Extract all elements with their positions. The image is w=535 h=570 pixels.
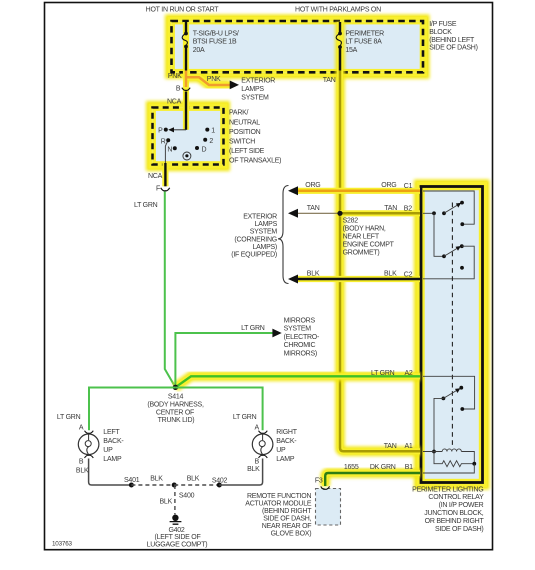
svg-text:OF TRANSAXLE): OF TRANSAXLE) <box>229 158 281 165</box>
F3 connector symbol <box>321 486 330 489</box>
relay link B2 to lower switch <box>434 213 444 256</box>
svg-text:ORG: ORG <box>305 182 320 189</box>
wire: ORG row core <box>298 190 420 193</box>
fuse F2 squiggle <box>339 22 341 71</box>
wire: PNK branch core <box>186 77 230 85</box>
relay lower switch arm <box>444 248 458 257</box>
svg-text:LEFT: LEFT <box>103 429 120 436</box>
svg-text:HOT WITH PARKLAMPS ON: HOT WITH PARKLAMPS ON <box>295 6 381 13</box>
svg-text:UP: UP <box>103 447 113 454</box>
wire: TAN B2 row core <box>340 212 420 215</box>
svg-text:EXTERIOR: EXTERIOR <box>241 78 275 85</box>
svg-text:MIRRORS): MIRRORS) <box>284 350 317 357</box>
svg-text:B: B <box>79 458 84 465</box>
svg-text:2: 2 <box>209 138 213 145</box>
svg-text:LT FUSE 8A: LT FUSE 8A <box>345 39 382 46</box>
svg-text:LAMPS: LAMPS <box>241 86 264 93</box>
park/neutral switch box glow <box>153 108 224 165</box>
brace for exterior lamps system <box>278 186 289 284</box>
wire: LT GRN A2 row core <box>175 376 420 387</box>
svg-text:UP: UP <box>276 447 286 454</box>
svg-text:TAN: TAN <box>384 443 397 450</box>
arrow to exterior lamps system (top) <box>230 81 239 90</box>
svg-text:PARK/: PARK/ <box>229 110 249 117</box>
perimeter lighting control relay box fill <box>421 187 483 483</box>
svg-text:JUNCTION BLOCK,: JUNCTION BLOCK, <box>424 510 484 517</box>
wire: LT GRN A2 row glow <box>175 376 420 387</box>
svg-text:LT GRN: LT GRN <box>57 414 81 421</box>
svg-text:BLK: BLK <box>187 475 200 482</box>
svg-text:(BODY HARNESS,: (BODY HARNESS, <box>147 402 204 409</box>
arrow ORG left <box>288 186 298 195</box>
svg-text:S282: S282 <box>343 217 359 224</box>
wire: BLK C2 row glow <box>298 274 420 284</box>
svg-text:POSITION: POSITION <box>229 129 261 136</box>
svg-text:(ELECTRO-: (ELECTRO- <box>284 334 320 341</box>
svg-text:(LEFT SIDE OF: (LEFT SIDE OF <box>154 534 200 541</box>
svg-text:N: N <box>167 147 172 154</box>
wire: LT GRN to left back-up lamp <box>89 388 175 431</box>
svg-text:NEUTRAL: NEUTRAL <box>229 119 260 126</box>
relay A2 line <box>423 376 475 409</box>
svg-text:BLK: BLK <box>247 466 260 473</box>
remote function actuator module box fill <box>316 489 341 526</box>
svg-text:B: B <box>176 85 181 92</box>
relay upper switch arm <box>444 204 459 213</box>
relay resistor <box>434 452 474 467</box>
svg-text:LAMPS): LAMPS) <box>252 244 277 251</box>
wire: BLK C2 row core <box>298 278 420 281</box>
wire: ORG row glow <box>298 186 420 196</box>
svg-text:S402: S402 <box>212 477 228 484</box>
svg-text:(IN I/P POWER: (IN I/P POWER <box>439 502 484 509</box>
svg-text:A2: A2 <box>405 370 413 377</box>
wire thin from R contact down inside switch box <box>165 141 168 165</box>
left lamp A connector <box>85 431 94 434</box>
perimeter lighting control relay box glow <box>421 187 483 483</box>
svg-text:BLK: BLK <box>150 475 163 482</box>
svg-text:(BEHIND RIGHT: (BEHIND RIGHT <box>262 508 312 515</box>
svg-text:RIGHT: RIGHT <box>276 429 298 436</box>
arrow TAN left <box>288 209 298 218</box>
svg-text:LUGGAGE COMPT): LUGGAGE COMPT) <box>147 542 208 549</box>
svg-text:ORG: ORG <box>381 182 396 189</box>
splice S400 <box>172 483 177 488</box>
svg-text:TAN: TAN <box>323 77 336 84</box>
svg-text:PNK: PNK <box>207 76 221 83</box>
splice S414 dot <box>173 385 178 390</box>
svg-text:ENGINE COMPT: ENGINE COMPT <box>343 241 395 248</box>
svg-text:CONTROL RELAY: CONTROL RELAY <box>428 494 484 501</box>
right back-up lamp bulb <box>252 434 273 455</box>
svg-text:LAMPS: LAMPS <box>255 221 278 228</box>
wire: LT GRN branch to mirrors <box>175 333 272 387</box>
svg-text:1655: 1655 <box>344 464 359 471</box>
svg-text:CENTER OF: CENTER OF <box>156 409 194 416</box>
svg-text:NCA: NCA <box>167 98 182 105</box>
wire: DK GRN B1 row glow <box>325 473 420 486</box>
relay C1 line <box>423 191 474 224</box>
relay B1 line <box>423 464 474 473</box>
svg-text:S401: S401 <box>124 477 140 484</box>
relay dashed actuation line <box>451 203 453 447</box>
svg-text:G402: G402 <box>168 527 184 534</box>
svg-text:PNK: PNK <box>168 73 182 80</box>
svg-text:B1: B1 <box>405 464 413 471</box>
svg-text:C1: C1 <box>404 183 413 190</box>
wire: LT GRN main vertical <box>165 192 176 388</box>
remote function actuator module box dashed border <box>316 489 341 526</box>
wire: PNK core fuse to B connector <box>185 71 188 88</box>
svg-text:R: R <box>161 138 166 145</box>
perimeter lighting control relay box border <box>421 187 483 483</box>
svg-text:TRUNK LID): TRUNK LID) <box>158 417 195 424</box>
svg-text:SIDE OF DASH): SIDE OF DASH) <box>429 45 477 52</box>
svg-text:EXTERIOR: EXTERIOR <box>243 214 277 221</box>
circled D contact <box>185 154 188 157</box>
svg-text:GLOVE BOX): GLOVE BOX) <box>271 531 312 538</box>
svg-text:T-SIG/B-U LPS/: T-SIG/B-U LPS/ <box>193 30 239 37</box>
relay C2 line <box>423 246 474 279</box>
svg-text:LAMP: LAMP <box>276 456 295 463</box>
left back-up lamp bulb <box>78 434 99 455</box>
svg-text:20A: 20A <box>193 47 205 54</box>
I/P fuse block box fill <box>172 21 424 72</box>
svg-text:(IF EQUIPPED): (IF EQUIPPED) <box>231 252 277 259</box>
park/neutral switch box fill <box>153 108 224 165</box>
svg-text:BTSI FUSE 1B: BTSI FUSE 1B <box>193 39 237 46</box>
park/neutral switch internals: wire into P arrow <box>172 129 186 131</box>
wire: black NCA below switch core <box>164 163 166 186</box>
svg-text:BACK-: BACK- <box>103 438 124 445</box>
svg-text:TAN: TAN <box>384 205 397 212</box>
F connector symbol <box>161 188 170 191</box>
svg-text:ACTUATOR MODULE: ACTUATOR MODULE <box>245 501 312 508</box>
wire: dashed BLK S400 to ground <box>174 485 176 515</box>
left lamp B connector <box>85 455 94 458</box>
wire: TAN vertical core <box>340 49 420 451</box>
svg-text:LT GRN: LT GRN <box>233 414 257 421</box>
svg-text:TAN: TAN <box>307 205 320 212</box>
contact dots P R N D 1 2 <box>164 128 168 132</box>
svg-text:(BEHIND LEFT: (BEHIND LEFT <box>429 37 475 44</box>
wire: DK GRN B1 row core <box>325 473 420 486</box>
svg-text:A: A <box>79 424 84 431</box>
svg-text:BLK: BLK <box>160 499 173 506</box>
wire: BLK left lamp down <box>89 459 132 486</box>
svg-text:GROMMET): GROMMET) <box>343 249 380 256</box>
svg-text:SYSTEM: SYSTEM <box>241 95 269 102</box>
svg-text:F3: F3 <box>315 478 323 485</box>
wire: PNK fuse output glow <box>181 22 191 130</box>
relay isolated contact dot <box>460 266 464 270</box>
right lamp A connector <box>259 431 268 434</box>
svg-text:I/P FUSE: I/P FUSE <box>429 21 457 28</box>
svg-text:SYSTEM: SYSTEM <box>284 326 312 333</box>
svg-text:BLK: BLK <box>307 271 320 278</box>
svg-text:SYSTEM: SYSTEM <box>250 229 278 236</box>
right lamp B connector <box>259 455 268 458</box>
wire: black core B connector to switch <box>185 92 187 130</box>
svg-text:LT GRN: LT GRN <box>134 202 158 209</box>
arrow to mirrors system <box>272 329 281 338</box>
svg-text:DK GRN: DK GRN <box>370 464 396 471</box>
wire: dashed BLK S401-S400 <box>131 484 174 486</box>
wire: BLK S402 to right lamp <box>219 459 262 486</box>
svg-text:(LEFT SIDE: (LEFT SIDE <box>229 148 265 155</box>
wire: TAN B2 row glow <box>340 209 420 219</box>
svg-text:BACK-: BACK- <box>276 438 297 445</box>
splice S401 <box>129 483 134 488</box>
svg-text:NEAR REAR OF: NEAR REAR OF <box>262 523 312 530</box>
svg-text:LT GRN: LT GRN <box>241 325 265 332</box>
svg-text:BLK: BLK <box>76 467 89 474</box>
ground G402 <box>172 515 178 521</box>
svg-text:D: D <box>202 146 207 153</box>
svg-text:1: 1 <box>211 128 215 135</box>
svg-text:SWITCH: SWITCH <box>229 139 255 146</box>
I/P fuse block box glow <box>172 21 424 72</box>
svg-text:B2: B2 <box>404 206 412 213</box>
svg-text:PERIMETER LIGHTING: PERIMETER LIGHTING <box>412 486 483 493</box>
svg-text:REMOTE FUNCTION: REMOTE FUNCTION <box>247 493 311 500</box>
svg-text:PERIMETER: PERIMETER <box>345 30 384 37</box>
relay B2 line <box>423 212 434 214</box>
arrow BLK left <box>288 275 298 284</box>
splice S282 dot <box>337 211 342 216</box>
svg-text:103763: 103763 <box>52 540 73 547</box>
splice S402 <box>217 483 222 488</box>
svg-text:BLOCK: BLOCK <box>429 29 452 36</box>
wire: PNK branch to exterior lamps glow <box>186 77 230 85</box>
svg-text:S414: S414 <box>168 394 184 401</box>
wire: dashed BLK S400-S402 <box>174 484 219 486</box>
svg-text:MIRRORS: MIRRORS <box>284 318 316 325</box>
relay lower switch <box>442 397 446 401</box>
svg-text:LAMP: LAMP <box>103 456 122 463</box>
wire: black NCA below switch glow <box>161 163 171 186</box>
svg-text:(BODY HARN,: (BODY HARN, <box>343 225 386 232</box>
svg-text:OR BEHIND RIGHT: OR BEHIND RIGHT <box>425 518 485 525</box>
fuse F1 squiggle <box>182 34 187 47</box>
svg-text:NEAR LEFT: NEAR LEFT <box>343 233 380 240</box>
svg-text:B: B <box>254 458 259 465</box>
svg-text:C2: C2 <box>404 271 413 278</box>
wire: TAN thin to arrow <box>298 212 340 214</box>
svg-text:LT GRN: LT GRN <box>371 370 395 377</box>
svg-text:NCA: NCA <box>148 173 163 180</box>
svg-text:HOT IN RUN OR START: HOT IN RUN OR START <box>146 6 220 13</box>
I/P fuse block box dashed border <box>172 21 424 72</box>
svg-text:15A: 15A <box>345 47 357 54</box>
svg-text:SIDE OF DASH,: SIDE OF DASH, <box>263 516 311 523</box>
svg-text:(CORNERING: (CORNERING <box>234 236 277 243</box>
relay link switch to A1 <box>434 398 443 451</box>
wire: black stub in fuse box left <box>185 22 187 71</box>
svg-text:CHROMIC: CHROMIC <box>284 342 316 349</box>
svg-text:F: F <box>156 186 160 193</box>
svg-text:S400: S400 <box>179 492 195 499</box>
svg-text:A: A <box>254 424 259 431</box>
park/neutral switch box dashed border <box>153 108 224 165</box>
svg-text:BLK: BLK <box>384 271 397 278</box>
wire: TAN vertical from right fuse glow <box>340 22 420 451</box>
wire: LT GRN to right back-up lamp <box>175 388 262 431</box>
relay A1 line with coil <box>423 451 442 453</box>
svg-text:A1: A1 <box>405 443 413 450</box>
B connector symbol <box>182 88 190 91</box>
svg-text:P: P <box>158 128 163 135</box>
svg-text:SIDE OF DASH): SIDE OF DASH) <box>435 526 483 533</box>
